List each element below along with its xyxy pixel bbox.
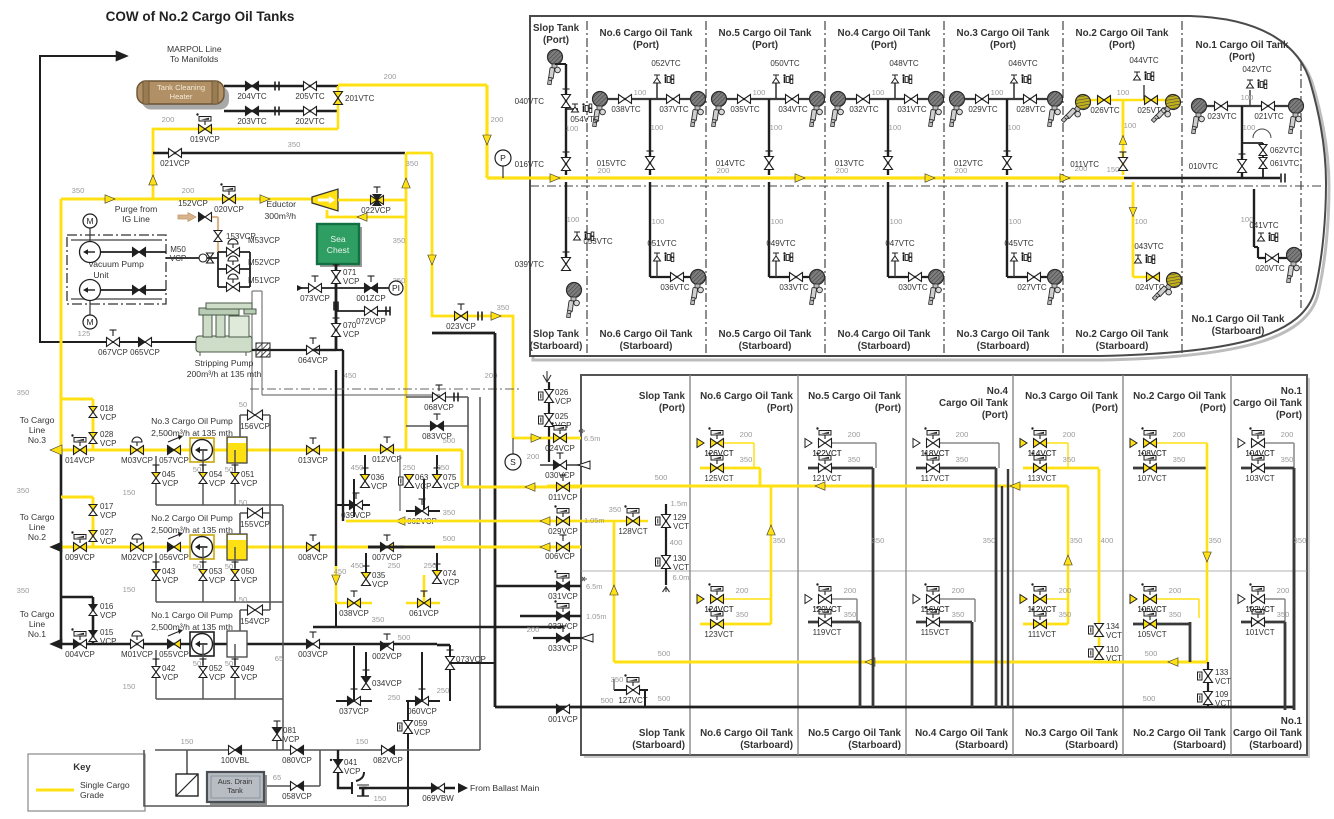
valve 055VCP xyxy=(168,640,175,649)
svg-text:100: 100 xyxy=(567,215,580,224)
svg-text:041VTC: 041VTC xyxy=(1249,221,1279,230)
svg-text:350: 350 xyxy=(17,586,30,595)
svg-text:50: 50 xyxy=(239,400,247,409)
svg-text:030VTC: 030VTC xyxy=(898,283,928,292)
svg-text:200m³/h at 135 mth: 200m³/h at 135 mth xyxy=(187,369,262,379)
svg-text:No.5 Cargo Oil Tank: No.5 Cargo Oil Tank xyxy=(808,728,901,739)
svg-text:(Port): (Port) xyxy=(1200,403,1226,414)
valve 110VCT xyxy=(1095,647,1104,654)
tank cleaning heater xyxy=(142,87,229,110)
svg-text:350: 350 xyxy=(872,536,885,545)
valve 031VTC xyxy=(905,95,912,104)
valve 101VCT xyxy=(1241,621,1285,624)
svg-text:130: 130 xyxy=(673,554,687,563)
valve M52VCP xyxy=(227,265,234,274)
machine No.5 port right xyxy=(810,92,825,127)
svg-text:No.3 Cargo Oil Tank: No.3 Cargo Oil Tank xyxy=(957,329,1050,340)
drop from 068 loop xyxy=(467,426,469,486)
svg-text:075: 075 xyxy=(443,473,457,482)
spray machine 046VTC xyxy=(1011,74,1031,83)
valve 073VCP xyxy=(299,287,336,289)
svg-text:100: 100 xyxy=(1008,123,1021,132)
svg-text:031VTC: 031VTC xyxy=(897,105,927,114)
svg-text:110: 110 xyxy=(1106,645,1119,654)
valve 124VCT xyxy=(724,598,771,600)
valve 126VCT xyxy=(724,442,754,444)
svg-text:VCP: VCP xyxy=(241,479,257,488)
svg-text:COW of No.2 Cargo Oil Tanks: COW of No.2 Cargo Oil Tanks xyxy=(106,9,295,24)
svg-text:M: M xyxy=(86,317,93,327)
yellow drop to main line xyxy=(485,85,488,178)
svg-text:100: 100 xyxy=(872,88,885,97)
pump vessel xyxy=(227,534,247,560)
svg-text:350: 350 xyxy=(983,536,996,545)
svg-text:100VBL: 100VBL xyxy=(221,756,250,765)
valve 036VTC xyxy=(671,273,678,282)
svg-text:(Port): (Port) xyxy=(875,403,901,414)
valve 100VBL xyxy=(229,746,236,755)
svg-text:100: 100 xyxy=(770,123,783,132)
valve 104VCT xyxy=(1265,442,1294,444)
svg-text:044VTC: 044VTC xyxy=(1129,56,1159,65)
svg-text:012VCP: 012VCP xyxy=(372,455,402,464)
svg-text:(Starboard): (Starboard) xyxy=(1249,740,1302,751)
valve 040VTC xyxy=(562,95,571,102)
MARPOL line xyxy=(40,56,126,342)
grid separator x=1231 xyxy=(1230,375,1232,755)
valve 024VTC xyxy=(1147,273,1154,282)
valve 108VCT xyxy=(1157,442,1207,444)
valve 037VCP xyxy=(336,700,372,702)
valve 061VCP xyxy=(406,602,440,605)
svg-text:Unit: Unit xyxy=(93,270,109,280)
overflow symbol xyxy=(543,371,551,382)
svg-text:Sea: Sea xyxy=(330,234,346,244)
valve 034VTC xyxy=(786,95,793,104)
svg-text:350: 350 xyxy=(1169,610,1182,619)
svg-text:50: 50 xyxy=(239,595,247,604)
ship hull outline xyxy=(533,20,1329,360)
svg-text:350: 350 xyxy=(372,615,385,624)
svg-text:200: 200 xyxy=(836,166,849,175)
svg-text:M: M xyxy=(86,216,93,226)
vacuum unit valve upper xyxy=(101,251,166,253)
svg-text:050: 050 xyxy=(241,567,255,576)
spray machine 052VTC xyxy=(654,74,674,83)
svg-text:031VCP: 031VCP xyxy=(548,592,578,601)
valve 059VCP xyxy=(407,701,409,806)
main COW supply line (yellow) in hull xyxy=(487,176,1124,179)
line to 128VCT xyxy=(581,520,648,523)
valve 063VCP xyxy=(405,475,414,482)
svg-text:No.6 Cargo Oil Tank: No.6 Cargo Oil Tank xyxy=(600,329,693,340)
valve 012VCP xyxy=(381,445,388,454)
valve 122VCT xyxy=(832,442,876,444)
svg-text:No.5 Cargo Oil Tank: No.5 Cargo Oil Tank xyxy=(719,28,812,39)
svg-text:Chest: Chest xyxy=(327,245,350,255)
svg-text:034VTC: 034VTC xyxy=(778,105,808,114)
valve 030VCP xyxy=(540,464,581,466)
svg-text:043VTC: 043VTC xyxy=(1134,242,1164,251)
svg-text:118VCT: 118VCT xyxy=(921,449,950,458)
valve 134VCT xyxy=(1095,624,1104,631)
dark 350 return line xyxy=(313,626,563,629)
svg-text:065VCP: 065VCP xyxy=(130,348,160,357)
valve 023VTC xyxy=(1215,102,1222,111)
svg-text:025: 025 xyxy=(555,412,569,421)
valve 026VCP xyxy=(548,382,550,462)
svg-text:133: 133 xyxy=(1215,668,1229,677)
svg-text:Tank Cleaning: Tank Cleaning xyxy=(157,83,205,92)
vacuum pump lower xyxy=(80,280,101,301)
svg-text:200: 200 xyxy=(848,430,861,439)
valve 071VCP xyxy=(332,271,341,278)
svg-text:Cargo Oil Tank: Cargo Oil Tank xyxy=(1233,728,1303,739)
valve 010VTC xyxy=(1238,160,1247,167)
svg-text:No.1: No.1 xyxy=(1281,716,1303,727)
svg-text:103VCT: 103VCT xyxy=(1245,474,1274,483)
svg-text:053: 053 xyxy=(209,567,223,576)
suction gauge S xyxy=(512,438,514,454)
svg-text:150: 150 xyxy=(1107,165,1120,174)
svg-text:Line: Line xyxy=(29,619,45,629)
svg-text:013VCP: 013VCP xyxy=(298,456,328,465)
svg-text:006VCP: 006VCP xyxy=(545,552,575,561)
slop port pipe xyxy=(565,64,567,175)
svg-text:057VCP: 057VCP xyxy=(159,456,189,465)
spray machine 045VTC xyxy=(1013,261,1015,277)
svg-text:Slop Tank: Slop Tank xyxy=(533,23,580,34)
svg-text:200: 200 xyxy=(491,115,504,124)
svg-text:035: 035 xyxy=(372,571,386,580)
svg-text:350: 350 xyxy=(1294,536,1307,545)
valve 156VCP xyxy=(240,414,270,416)
valve 060VCP xyxy=(406,700,440,702)
svg-text:250: 250 xyxy=(403,463,416,472)
valve 024VCP xyxy=(513,437,581,440)
svg-text:No.2 Cargo Oil Tank: No.2 Cargo Oil Tank xyxy=(1076,28,1169,39)
svg-text:450: 450 xyxy=(351,463,364,472)
svg-text:029VTC: 029VTC xyxy=(968,105,998,114)
svg-text:No.3: No.3 xyxy=(28,435,46,445)
svg-text:037VTC: 037VTC xyxy=(659,105,689,114)
svg-text:123VCT: 123VCT xyxy=(704,630,733,639)
svg-text:Slop Tank: Slop Tank xyxy=(639,391,686,402)
svg-text:082VCP: 082VCP xyxy=(373,756,403,765)
svg-text:200: 200 xyxy=(1169,586,1182,595)
svg-text:350: 350 xyxy=(497,303,510,312)
svg-text:128VCT: 128VCT xyxy=(618,527,647,536)
svg-text:500: 500 xyxy=(398,633,411,642)
svg-text:040VTC: 040VTC xyxy=(515,97,545,106)
svg-text:350: 350 xyxy=(1277,610,1290,619)
svg-text:027VTC: 027VTC xyxy=(1017,283,1047,292)
svg-text:350: 350 xyxy=(773,536,786,545)
M-valve manifold xyxy=(217,252,219,287)
svg-text:200: 200 xyxy=(955,166,968,175)
svg-text:105VCT: 105VCT xyxy=(1137,630,1166,639)
pump bus vertical xyxy=(282,505,284,750)
svg-text:064VCP: 064VCP xyxy=(298,356,328,365)
svg-text:014VCP: 014VCP xyxy=(65,456,95,465)
svg-text:350: 350 xyxy=(288,140,301,149)
svg-text:(Starboard): (Starboard) xyxy=(740,740,793,751)
bellmouth xyxy=(663,586,670,592)
svg-text:028: 028 xyxy=(100,430,114,439)
svg-text:VCP: VCP xyxy=(209,576,225,585)
valve 118VCT xyxy=(940,442,999,444)
svg-text:028VTC: 028VTC xyxy=(1016,105,1046,114)
valve 067VCP xyxy=(107,338,114,347)
svg-text:350: 350 xyxy=(1281,455,1294,464)
hull centerline dash-dot xyxy=(530,185,1322,187)
vacuum unit valve lower xyxy=(101,289,166,291)
svg-text:200: 200 xyxy=(956,430,969,439)
svg-text:052: 052 xyxy=(209,664,223,673)
valve 034VCP xyxy=(362,677,371,684)
valve 125VCT xyxy=(700,467,760,470)
svg-text:003VCP: 003VCP xyxy=(298,650,328,659)
svg-text:047VTC: 047VTC xyxy=(885,239,915,248)
valve 039VCP xyxy=(336,504,370,506)
line 023VCP xyxy=(432,153,513,438)
svg-text:250: 250 xyxy=(388,561,401,570)
svg-text:MARPOL Line: MARPOL Line xyxy=(167,44,222,54)
valve 112VCT xyxy=(1047,598,1068,600)
starboard pipe No.5 xyxy=(768,182,770,277)
svg-text:200: 200 xyxy=(527,452,540,461)
valve 016VTC xyxy=(562,158,571,165)
yellow COW line 500 lower xyxy=(614,661,1207,664)
valve 029VCP xyxy=(346,520,581,523)
line to grid 001VCP xyxy=(450,662,495,664)
svg-text:150: 150 xyxy=(181,737,194,746)
svg-text:250: 250 xyxy=(437,463,450,472)
svg-text:From Ballast Main: From Ballast Main xyxy=(470,783,539,793)
svg-text:100: 100 xyxy=(652,217,665,226)
svg-text:203VTC: 203VTC xyxy=(237,117,267,126)
grid separator x=798 xyxy=(797,375,799,755)
svg-text:050VTC: 050VTC xyxy=(770,59,800,68)
machine No.3 port left xyxy=(950,92,965,127)
svg-text:067VCP: 067VCP xyxy=(98,348,128,357)
svg-text:042: 042 xyxy=(162,664,176,673)
svg-text:(Starboard): (Starboard) xyxy=(955,740,1008,751)
valve 115VCT xyxy=(916,621,972,624)
svg-text:VCP: VCP xyxy=(555,397,571,406)
valve 119VCT xyxy=(808,621,860,624)
svg-text:200: 200 xyxy=(736,586,749,595)
svg-text:100: 100 xyxy=(634,88,647,97)
svg-text:121VCT: 121VCT xyxy=(812,474,841,483)
valve 201VTC xyxy=(337,86,340,129)
flow arrow xyxy=(1060,174,1070,183)
svg-text:200: 200 xyxy=(740,430,753,439)
ballast main line xyxy=(363,788,455,796)
svg-text:VCP: VCP xyxy=(283,735,299,744)
svg-text:350: 350 xyxy=(611,675,624,684)
yellow line to hull top xyxy=(338,84,487,87)
svg-text:Cargo Oil Tank: Cargo Oil Tank xyxy=(939,398,1009,409)
sub manifold xyxy=(156,504,283,506)
svg-text:350: 350 xyxy=(72,186,85,195)
valve 022VCP xyxy=(371,196,378,205)
sub valves under pump xyxy=(155,650,157,682)
svg-text:002VCP: 002VCP xyxy=(372,652,402,661)
vacuum pump upper xyxy=(80,242,101,263)
valve 128VCT xyxy=(627,517,634,526)
svg-text:Line: Line xyxy=(29,522,45,532)
svg-text:126VCT: 126VCT xyxy=(704,449,733,458)
svg-text:100: 100 xyxy=(1009,217,1022,226)
valve 064VCP xyxy=(307,346,314,355)
svg-text:026: 026 xyxy=(555,388,569,397)
pump vessel xyxy=(227,631,247,657)
svg-text:150: 150 xyxy=(123,585,136,594)
svg-text:056VCP: 056VCP xyxy=(159,553,189,562)
svg-text:020VTC: 020VTC xyxy=(1255,264,1285,273)
svg-text:102VCT: 102VCT xyxy=(1245,605,1274,614)
svg-text:VCP: VCP xyxy=(100,637,116,646)
svg-text:015: 015 xyxy=(100,628,114,637)
svg-text:(Port): (Port) xyxy=(1109,40,1135,51)
svg-text:400: 400 xyxy=(670,538,683,547)
valve 204VTC xyxy=(246,82,253,91)
svg-text:VCP: VCP xyxy=(372,580,388,589)
svg-text:500: 500 xyxy=(658,694,671,703)
pump vessel xyxy=(227,437,247,463)
svg-text:019VCP: 019VCP xyxy=(190,135,220,144)
svg-text:134: 134 xyxy=(1106,622,1120,631)
svg-text:052VTC: 052VTC xyxy=(651,59,681,68)
svg-text:034VCP: 034VCP xyxy=(372,679,402,688)
svg-text:129: 129 xyxy=(673,513,687,522)
svg-text:055VCP: 055VCP xyxy=(159,650,189,659)
valve 006VCP xyxy=(404,546,581,549)
svg-text:070: 070 xyxy=(343,321,357,330)
No.2 cell yellow drop 350 xyxy=(1206,443,1209,662)
svg-text:Aus. Drain: Aus. Drain xyxy=(218,777,253,786)
svg-text:VCT: VCT xyxy=(673,522,689,531)
svg-text:(Port): (Port) xyxy=(990,40,1016,51)
svg-text:P: P xyxy=(500,153,506,163)
valve 023VCP xyxy=(455,312,462,321)
svg-text:350: 350 xyxy=(1070,536,1083,545)
valve 026VTC xyxy=(1098,96,1105,105)
valve 025VTC xyxy=(1145,96,1152,105)
spray machine 043VTC xyxy=(1135,254,1155,263)
svg-text:008VCP: 008VCP xyxy=(298,553,328,562)
eductor suction line xyxy=(327,210,406,217)
svg-text:VCP: VCP xyxy=(162,576,178,585)
svg-text:350: 350 xyxy=(1173,455,1186,464)
svg-text:011VTC: 011VTC xyxy=(1070,160,1099,169)
svg-text:350: 350 xyxy=(393,236,406,245)
svg-text:127VCT: 127VCT xyxy=(618,696,647,705)
svg-text:No.1: No.1 xyxy=(1281,386,1303,397)
valve 117VCT xyxy=(916,467,996,470)
svg-text:S: S xyxy=(510,457,516,467)
svg-text:VCP: VCP xyxy=(343,330,359,339)
yellow riser No.3 cell 350 xyxy=(1067,486,1070,624)
svg-text:062VTC: 062VTC xyxy=(1270,146,1300,155)
pipe break on sea line xyxy=(333,302,335,311)
pressure gauge P xyxy=(502,162,504,178)
valve 007VCP xyxy=(368,546,404,549)
svg-text:104VCT: 104VCT xyxy=(1245,449,1274,458)
pump row No.2 Cargo Oil Pump main line xyxy=(57,546,437,549)
svg-text:(Port): (Port) xyxy=(982,410,1008,421)
valve 082VCP xyxy=(382,746,389,755)
svg-text:202VTC: 202VTC xyxy=(295,117,325,126)
eductor xyxy=(312,189,338,211)
vacuum pump unit box xyxy=(67,235,166,304)
svg-text:017: 017 xyxy=(100,502,114,511)
sea chest line down xyxy=(335,264,338,350)
starboard pipe No.3 xyxy=(1006,182,1008,277)
svg-text:053VTC: 053VTC xyxy=(583,237,613,246)
valve M53VCP xyxy=(227,248,234,257)
svg-text:116VCT: 116VCT xyxy=(921,605,950,614)
machine No.2 port left xyxy=(1061,92,1093,129)
No.2 port pipe yellow xyxy=(1083,99,1173,102)
svg-text:150: 150 xyxy=(123,682,136,691)
cargo pump No.1 Cargo Oil Pump xyxy=(190,632,214,656)
svg-text:069VBW: 069VBW xyxy=(422,794,454,803)
svg-text:50: 50 xyxy=(225,465,233,474)
svg-text:054VTC: 054VTC xyxy=(570,115,600,124)
svg-text:VCT: VCT xyxy=(1215,677,1231,686)
valve 114VCT xyxy=(1047,442,1068,444)
svg-text:Cargo Oil Tank: Cargo Oil Tank xyxy=(1233,398,1303,409)
svg-text:No.6 Cargo Oil Tank: No.6 Cargo Oil Tank xyxy=(700,391,793,402)
svg-text:119VCT: 119VCT xyxy=(813,628,842,637)
valve 038VCP xyxy=(336,602,372,605)
valve 031VCP xyxy=(495,585,581,588)
valve 109VCT xyxy=(1204,692,1213,699)
svg-text:500: 500 xyxy=(1145,649,1158,658)
svg-text:100: 100 xyxy=(1241,93,1254,102)
svg-text:VCP: VCP xyxy=(415,482,431,491)
svg-text:027: 027 xyxy=(100,528,114,537)
valve 008VCP xyxy=(307,543,314,552)
svg-text:023VCP: 023VCP xyxy=(446,322,476,331)
svg-text:001VCP: 001VCP xyxy=(548,715,578,724)
svg-text:No.3 Cargo Oil Pump: No.3 Cargo Oil Pump xyxy=(151,416,233,426)
svg-text:051VTC: 051VTC xyxy=(647,239,677,248)
svg-text:450: 450 xyxy=(344,371,357,380)
branch pair 016/015VCP xyxy=(61,596,93,599)
svg-text:109: 109 xyxy=(1215,690,1229,699)
svg-text:200: 200 xyxy=(1059,586,1072,595)
valve 062VCP xyxy=(406,510,440,512)
svg-text:2,500m³/h at 135 mth: 2,500m³/h at 135 mth xyxy=(151,428,233,438)
svg-text:100: 100 xyxy=(1124,121,1137,130)
svg-text:041: 041 xyxy=(344,758,358,767)
svg-text:Single Cargo: Single Cargo xyxy=(80,780,130,790)
valve 011VTC xyxy=(1119,158,1128,165)
svg-text:VCP: VCP xyxy=(162,673,178,682)
tank separator x=1301 xyxy=(1300,62,1302,308)
svg-text:To Manifolds: To Manifolds xyxy=(170,54,218,64)
svg-text:100: 100 xyxy=(566,124,579,133)
svg-text:200: 200 xyxy=(598,166,611,175)
tank separator x=944 xyxy=(943,21,945,355)
svg-text:150: 150 xyxy=(374,794,387,803)
valve 014VCP xyxy=(74,446,81,455)
svg-text:(Port): (Port) xyxy=(767,403,793,414)
sub valves under pump xyxy=(155,456,157,488)
